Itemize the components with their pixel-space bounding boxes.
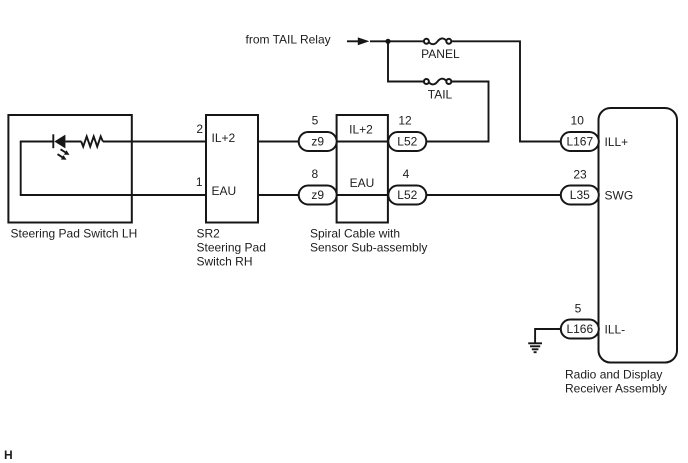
- connector z9 pin5: [299, 132, 337, 151]
- fuse TAIL: [424, 79, 451, 85]
- svg-text:L35: L35: [570, 188, 590, 202]
- LED emission arrow 2: [58, 154, 67, 160]
- LED emission arrow 1: [61, 149, 70, 155]
- svg-text:EAU: EAU: [212, 184, 237, 198]
- wire junction down to TAIL fuse: [388, 41, 423, 81]
- svg-text:PANEL: PANEL: [421, 47, 460, 61]
- svg-text:ILL-: ILL-: [605, 322, 626, 336]
- svg-text:EAU: EAU: [350, 176, 375, 190]
- svg-text:L166: L166: [566, 322, 593, 336]
- svg-text:TAIL: TAIL: [428, 88, 453, 102]
- wire IL+2 through spiral cable: [337, 141, 388, 143]
- connector L166 pin5: [561, 320, 599, 339]
- svg-text:Sensor Sub-assembly: Sensor Sub-assembly: [310, 241, 427, 255]
- svg-text:z9: z9: [311, 188, 324, 202]
- wire loop bottom to SR2 EAU: [20, 194, 206, 196]
- svg-text:10: 10: [571, 114, 585, 128]
- svg-text:Switch RH: Switch RH: [197, 255, 253, 269]
- LED D1 cathode bar: [52, 134, 54, 148]
- svg-text:5: 5: [575, 301, 582, 315]
- wire TAIL fuse to L52 pin12: [426, 82, 489, 142]
- connector z9 pin8: [299, 186, 337, 205]
- wire EAU through spiral cable: [337, 194, 388, 196]
- svg-text:IL+2: IL+2: [212, 131, 236, 145]
- wire resistor to SR2 IL+2: [103, 141, 206, 143]
- svg-text:2: 2: [196, 122, 203, 136]
- svg-text:23: 23: [573, 167, 587, 181]
- box SR2 Steering Pad Switch RH: [206, 115, 258, 223]
- svg-text:IL+2: IL+2: [349, 123, 373, 137]
- svg-text:Receiver Assembly: Receiver Assembly: [565, 381, 667, 395]
- wire loop top to LED: [20, 141, 54, 143]
- wire arrow to PANEL fuse: [370, 40, 423, 42]
- svg-text:L52: L52: [397, 134, 417, 148]
- svg-text:from TAIL Relay: from TAIL Relay: [246, 33, 331, 47]
- ground: [528, 343, 542, 352]
- svg-text:12: 12: [398, 114, 412, 128]
- svg-text:8: 8: [311, 167, 318, 181]
- connector L167 pin10: [561, 132, 599, 151]
- svg-text:L167: L167: [566, 134, 593, 148]
- connector L35 pin23: [561, 186, 599, 205]
- svg-text:Steering Pad: Steering Pad: [197, 241, 266, 255]
- svg-text:H: H: [4, 448, 13, 462]
- connector L52 pin4: [388, 186, 426, 205]
- box Spiral Cable with Sensor Sub-assembly: [337, 115, 388, 223]
- svg-text:L52: L52: [397, 188, 417, 202]
- wire PANEL fuse to ILL+: [452, 41, 562, 141]
- svg-text:Radio and Display: Radio and Display: [565, 367, 662, 381]
- wire from TAIL Relay feed: [347, 40, 359, 42]
- svg-text:ILL+: ILL+: [605, 135, 629, 149]
- svg-text:1: 1: [196, 175, 203, 189]
- wire L52 pin4 to L35: [426, 194, 562, 196]
- resistor R: [81, 136, 103, 146]
- wire LED to resistor: [65, 141, 81, 143]
- junction node: [385, 39, 390, 44]
- svg-text:SR2: SR2: [197, 227, 221, 241]
- box Steering Pad Switch LH: [8, 115, 131, 223]
- connector L52 pin12: [388, 132, 426, 151]
- wire L166 to ground: [535, 329, 561, 343]
- svg-text:Steering Pad Switch LH: Steering Pad Switch LH: [11, 227, 138, 241]
- wire lamp loop vertical: [20, 142, 22, 196]
- svg-text:Spiral Cable with: Spiral Cable with: [310, 227, 400, 241]
- svg-text:4: 4: [403, 167, 410, 181]
- wire SR2 to z9 pin5: [258, 141, 300, 143]
- svg-text:SWG: SWG: [605, 188, 634, 202]
- fuse PANEL: [424, 38, 451, 44]
- box Radio and Display Receiver Assembly: [599, 108, 678, 363]
- arrowhead feed direction: [358, 37, 370, 45]
- svg-text:z9: z9: [311, 134, 324, 148]
- svg-text:5: 5: [312, 114, 319, 128]
- LED D1 triangle: [54, 135, 65, 149]
- wire SR2 to z9 pin8: [258, 194, 300, 196]
